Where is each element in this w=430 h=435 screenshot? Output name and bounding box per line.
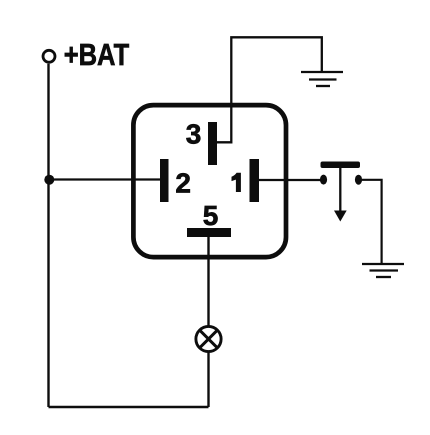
svg-text:5: 5 xyxy=(203,200,219,231)
svg-text:+BAT: +BAT xyxy=(64,37,130,72)
switch S1 actuator arrow xyxy=(334,168,347,222)
switch S1 contact bar xyxy=(321,162,361,169)
svg-text:3: 3 xyxy=(186,119,202,150)
wire: pin 5 down to lamp xyxy=(207,237,209,327)
wire: right contact to bottom-right ground xyxy=(362,180,382,263)
wire: +BAT terminal down the left side xyxy=(47,64,49,407)
ground (bottom right) xyxy=(362,264,404,277)
wire: lamp down to bottom return wire xyxy=(207,351,209,407)
svg-text:2: 2 xyxy=(175,167,191,198)
wire: junction to pin 2 xyxy=(49,178,160,180)
node: junction of left wire and pin 2 branch xyxy=(44,175,54,185)
terminal +BAT xyxy=(43,50,55,62)
wire: pin 3 up and over to top-right ground xyxy=(217,37,322,142)
switch S1 left contact xyxy=(320,175,327,185)
relay U1 outline xyxy=(133,105,286,257)
ground (top right) xyxy=(301,72,343,86)
pin 5 xyxy=(187,228,231,237)
wire: bottom return run to +BAT branch xyxy=(49,406,209,408)
lamp L1 xyxy=(196,326,221,351)
pin 3 xyxy=(208,122,217,165)
pin 1 label xyxy=(232,173,241,192)
pin 2 xyxy=(160,159,169,202)
pin 1 xyxy=(250,159,260,202)
wire: pin 1 to switch xyxy=(259,179,321,181)
switch S1 right contact xyxy=(355,175,362,185)
